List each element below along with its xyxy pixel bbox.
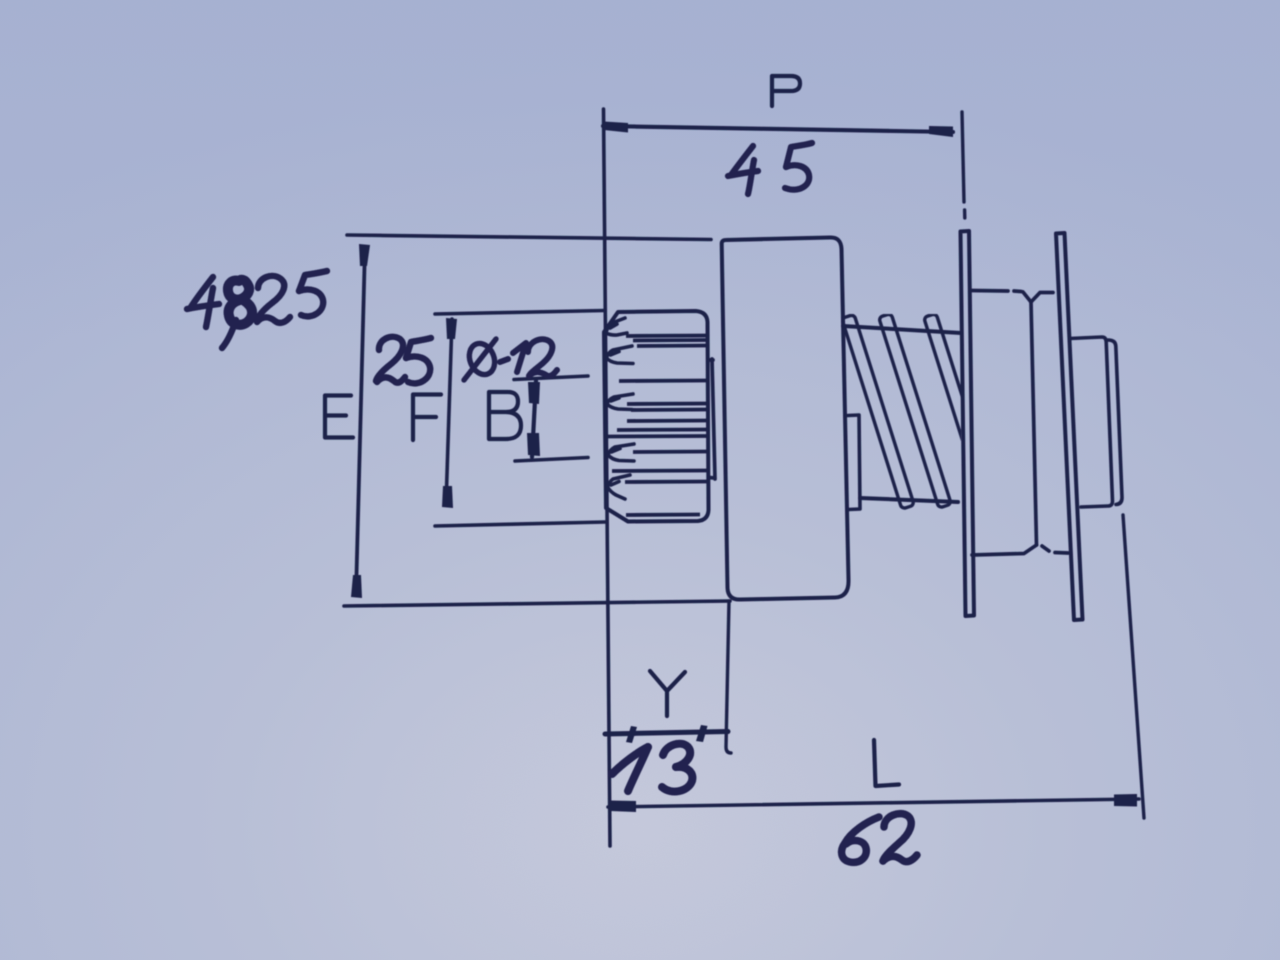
spline shaft top envelope <box>843 326 961 333</box>
extension line left (front face, shared by P Y L) <box>604 109 611 846</box>
retainer collar left section top edge <box>972 291 1053 303</box>
extension line E bottom <box>344 601 730 606</box>
arrowhead L right <box>1114 794 1137 807</box>
extension line F top <box>435 311 605 315</box>
extension line L right <box>1123 515 1144 818</box>
arrowhead B top <box>528 382 540 404</box>
value 62 handwritten <box>842 814 917 863</box>
arrowhead E top <box>359 244 370 266</box>
arrowhead Y left <box>626 726 637 743</box>
label P <box>772 76 800 106</box>
label Y <box>650 671 685 716</box>
gear tooth lines <box>606 336 708 516</box>
dimension line F <box>446 319 452 505</box>
arrowhead F bottom <box>442 486 453 508</box>
arrowhead B bottom <box>527 433 540 456</box>
label E <box>325 396 353 438</box>
arrowhead P left <box>604 122 628 133</box>
helical splines <box>842 313 997 509</box>
value 48,25 handwritten <box>187 271 327 348</box>
thrust washer 1 <box>961 231 975 616</box>
gear tooth chamfer beaks <box>606 318 634 499</box>
arrowhead P right <box>929 126 953 137</box>
retainer collar bottom edge <box>972 545 1068 555</box>
arrowhead F top <box>446 318 457 339</box>
drive body outline <box>722 237 849 599</box>
extension line B top <box>514 376 588 380</box>
end stop ring <box>1070 337 1113 507</box>
label L <box>874 740 899 786</box>
diameter symbol <box>464 339 499 380</box>
extension line right of P <box>962 112 965 218</box>
extension line B bottom <box>515 458 588 462</box>
value 12 handwritten <box>500 339 557 376</box>
dimension line E <box>356 247 365 594</box>
hub step between gear and body <box>708 359 715 479</box>
value 13 handwritten <box>612 744 692 792</box>
label B <box>489 392 521 439</box>
dimension line L <box>608 799 1139 807</box>
arrowhead L left <box>610 801 636 813</box>
label F <box>413 395 441 441</box>
arrowhead E bottom <box>351 575 362 598</box>
value 25 handwritten <box>376 337 431 384</box>
spline shaft bottom envelope <box>860 498 958 502</box>
arrowhead Y right <box>696 725 708 742</box>
shaft step collar at body right <box>848 415 860 510</box>
value 45 handwritten <box>728 143 812 194</box>
dimension line Y <box>605 732 728 735</box>
retainer collar divider <box>1031 302 1037 545</box>
extension line Y right <box>726 601 731 753</box>
extension line F bottom <box>435 522 605 526</box>
dimension line P <box>603 126 953 132</box>
thrust washer 2 <box>1056 233 1083 620</box>
extension line E top <box>347 235 711 240</box>
dimension line B <box>532 381 536 457</box>
end stop ring outer edge <box>1108 340 1122 505</box>
pinion gear outline <box>604 311 709 522</box>
